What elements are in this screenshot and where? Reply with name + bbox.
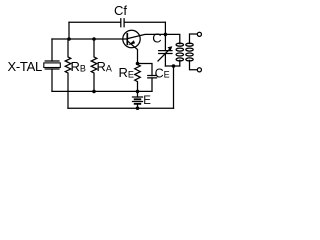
battery E short plates	[135, 99, 141, 104]
coil secondary L2	[186, 43, 193, 46]
wire top feedback rail	[69, 21, 165, 23]
wire secondary top jog	[190, 34, 198, 44]
node dot collector junction	[136, 62, 140, 66]
capacitor CE branch wires	[138, 64, 153, 92]
resistor RA	[91, 39, 97, 91]
capacitor CE plates	[148, 76, 157, 78]
node dot emitter junction	[164, 33, 168, 37]
svg-text:RA: RA	[97, 59, 112, 74]
wire base rail	[52, 38, 127, 40]
node dot base-RB junction	[67, 37, 71, 41]
wire crystal bottom	[51, 69, 53, 91]
svg-text:CE: CE	[155, 66, 170, 80]
capacitor Cf	[121, 19, 124, 27]
battery E wires	[137, 91, 139, 108]
wire bottom rail B	[68, 107, 174, 109]
svg-text:RB: RB	[71, 59, 86, 74]
wire emitter node to coil	[165, 34, 179, 43]
resistor RB	[65, 39, 71, 108]
wire Cf right riser	[164, 22, 166, 34]
capacitor C branch vertical	[164, 34, 166, 66]
wire ground rail A	[52, 90, 152, 92]
resistor RE	[135, 64, 141, 92]
transistor Q1 base bar	[126, 34, 128, 45]
svg-text:C: C	[152, 31, 161, 46]
svg-text:X-TAL: X-TAL	[8, 59, 42, 74]
transistor Q1 emitter	[127, 34, 165, 38]
svg-text:E: E	[143, 95, 151, 107]
node dot rail A RA junction	[92, 90, 96, 94]
node dot coil bottom junction	[172, 64, 176, 68]
wire rail B riser	[173, 66, 175, 108]
crystal X-TAL plates	[45, 61, 59, 69]
crystal X-TAL box	[44, 63, 61, 68]
coil primary L1	[176, 43, 183, 46]
wire primary bottom	[179, 60, 181, 66]
capacitor C plates	[159, 51, 172, 54]
capacitor C arrow shaft	[158, 49, 170, 61]
capacitor C arrow head	[168, 46, 173, 50]
battery E long plates	[133, 97, 143, 102]
wire crystal top riser	[51, 39, 53, 61]
transistor Q1 circle	[123, 30, 140, 47]
transistor Q1 collector	[127, 41, 137, 64]
terminal bottom	[197, 68, 201, 72]
node dot base-RA junction	[92, 37, 96, 41]
wire C bottom to coil	[165, 65, 179, 67]
transistor Q1 emitter arrow	[128, 40, 135, 45]
node dot rail B battery junction	[136, 106, 140, 110]
svg-text:RE: RE	[119, 65, 134, 80]
wire left riser to base rail	[68, 22, 70, 39]
wire secondary bottom jog	[190, 60, 198, 69]
node dot rail A RE junction	[136, 90, 140, 94]
terminal top	[197, 32, 201, 36]
svg-text:Cf: Cf	[114, 3, 127, 18]
